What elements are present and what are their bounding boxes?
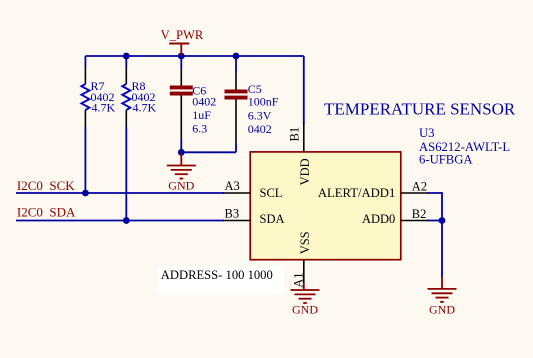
svg-text:6.3: 6.3 — [192, 121, 207, 135]
svg-text:ALERT/ADD1: ALERT/ADD1 — [318, 186, 395, 200]
pin B1 (VDD) — [288, 123, 313, 185]
wire ALERT/ADD1 to node — [427, 193, 442, 221]
pin B2 (ADD0) — [362, 207, 428, 226]
svg-text:VSS: VSS — [298, 231, 312, 254]
svg-text:VDD: VDD — [298, 158, 312, 185]
IC U3 designator and part labels — [419, 126, 510, 167]
wire node to right ground — [441, 221, 443, 278]
svg-text:6-UFBGA: 6-UFBGA — [419, 153, 473, 167]
svg-text:B2: B2 — [412, 207, 427, 221]
wire C5 top — [235, 56, 237, 73]
wire I2C0 SDA net — [16, 220, 224, 222]
junction R8/SDA — [123, 217, 130, 224]
wire power rail — [85, 55, 303, 57]
wire rail drop to VDD pin — [303, 56, 305, 124]
svg-text:ADDRESS- 100 1000: ADDRESS- 100 1000 — [161, 268, 273, 282]
pin B3 (SDA) — [223, 207, 284, 227]
ground GND (below C6) — [167, 153, 196, 192]
power port V_PWR — [161, 28, 204, 56]
svg-text:B1: B1 — [288, 127, 302, 142]
svg-text:GND: GND — [168, 178, 194, 192]
resistor R7 — [81, 67, 115, 127]
resistor R8 — [122, 67, 156, 127]
svg-text:4.7K: 4.7K — [92, 101, 116, 115]
text frame ADDRESS note — [158, 266, 285, 295]
capacitor C6 — [170, 69, 217, 139]
svg-text:U3: U3 — [419, 126, 435, 140]
junction V_PWR/rail — [178, 53, 185, 60]
junction C6/ground — [178, 149, 185, 156]
svg-text:TEMPERATURE SENSOR: TEMPERATURE SENSOR — [324, 99, 516, 118]
wire C6 top — [180, 56, 182, 69]
svg-text:0402: 0402 — [248, 122, 272, 136]
svg-text:A2: A2 — [412, 179, 427, 193]
wire R8 top — [125, 56, 127, 67]
svg-text:100nF: 100nF — [248, 95, 279, 109]
pin A3 (SCL) — [223, 179, 282, 200]
svg-text:6.3V: 6.3V — [248, 109, 272, 123]
wire I2C0 SCK net — [16, 192, 224, 194]
svg-text:I2C0 SDA: I2C0 SDA — [17, 205, 76, 220]
IC U3 body — [250, 152, 401, 260]
svg-text:SDA: SDA — [260, 212, 285, 226]
wire R7 top — [84, 56, 86, 67]
ground GND (below VSS) — [291, 283, 320, 316]
svg-text:ADD0: ADD0 — [362, 212, 395, 226]
svg-text:0402: 0402 — [192, 95, 216, 109]
svg-text:SCL: SCL — [260, 186, 283, 200]
wire C6 bottom — [180, 139, 182, 152]
wire ADD0 to node — [427, 220, 442, 222]
wire R7 bottom to SCK net — [84, 127, 86, 193]
svg-text:A3: A3 — [225, 179, 240, 193]
junction R7/SCK — [82, 190, 89, 197]
wire R8 bottom to SDA net — [125, 127, 127, 221]
capacitor C5 — [225, 73, 279, 143]
wire C5 bottom — [235, 143, 237, 152]
junction ADD0 node — [439, 217, 446, 224]
wire cap-ground link — [181, 151, 236, 153]
junction C5/rail — [233, 53, 240, 60]
svg-text:4.7K: 4.7K — [133, 101, 157, 115]
pin A2 (ALERT/ADD1) — [318, 179, 428, 200]
junction R8/rail — [123, 53, 130, 60]
svg-text:B3: B3 — [225, 207, 240, 221]
svg-text:V_PWR: V_PWR — [161, 28, 204, 42]
svg-text:GND: GND — [292, 302, 318, 316]
pin A1 (VSS) — [292, 231, 313, 287]
svg-text:GND: GND — [429, 302, 455, 316]
ground GND (right, ADD0 node) — [428, 277, 457, 316]
svg-text:1uF: 1uF — [192, 108, 211, 122]
svg-text:I2C0 SCK: I2C0 SCK — [17, 178, 75, 193]
